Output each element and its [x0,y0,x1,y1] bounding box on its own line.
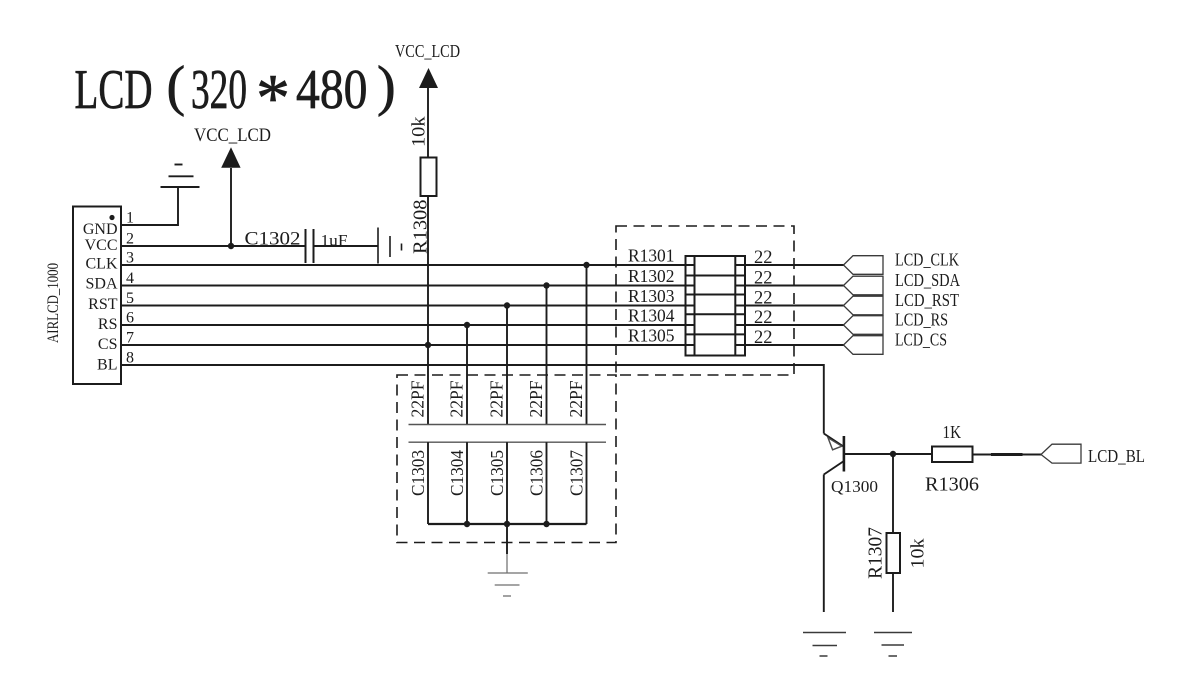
svg-text:*: * [256,60,290,136]
port flag LCD_CS [844,336,884,355]
resistor pack body [686,256,746,356]
emitter diagonal [824,461,844,475]
svg-text:480: 480 [296,59,368,121]
ground bus under caps [428,523,587,525]
junction base/R1307 [890,451,896,457]
svg-text:R1307: R1307 [865,527,887,579]
transistor Q1300 [824,434,844,613]
svg-text:6: 6 [126,310,134,327]
port flag LCD_BL [1041,444,1081,463]
svg-text:4: 4 [126,270,134,287]
svg-text:BL: BL [97,357,117,374]
wire R1305 out [735,344,844,346]
wire R1303 out [735,305,844,307]
svg-text:(: ( [167,56,186,118]
riser C1306 to SDA [546,286,548,425]
port flag LCD_RST [844,296,884,315]
svg-text:): ) [377,56,396,118]
capacitor C1302 plates [305,229,307,263]
title LCD (320*480) [75,56,396,136]
base bar [843,436,846,472]
svg-text:LCD_SDA: LCD_SDA [895,270,960,290]
svg-text:CLK: CLK [86,256,118,273]
collector diagonal [824,434,844,447]
svg-text:22PF: 22PF [566,381,586,418]
riser C1305 to RST [506,306,508,425]
svg-text:RST: RST [88,296,118,313]
wire CS row [121,344,695,346]
dashed box resistor pack [616,226,794,375]
cap lower leads [428,442,587,524]
junction C1306/SDA [543,282,549,288]
wire BL row [121,365,824,434]
svg-text:C1303: C1303 [408,450,428,496]
pin-1 orientation dot [109,215,114,220]
junction C1304/RS [464,322,470,328]
ground at R1307 [874,633,912,657]
svg-text:Q1300: Q1300 [831,477,878,496]
svg-text:2: 2 [126,231,134,248]
svg-text:1K: 1K [943,422,962,442]
svg-text:7: 7 [126,330,134,347]
port flag LCD_SDA [844,276,884,295]
emitter wire down [823,475,825,613]
junction C1304/bus [464,521,470,527]
connector J AIRLCD_1000 box [73,207,121,385]
wire C1302 to ground [314,245,379,247]
wire CLK row [121,264,695,266]
wire VCC_LCD arrow to VCC row [230,168,232,246]
riser C1307 to CLK [586,265,588,425]
svg-text:R1302: R1302 [628,266,675,286]
svg-text:R1305: R1305 [628,326,675,346]
ground under caps [488,573,528,596]
junction C1305/RST [504,302,510,308]
junction R1308/CS [425,342,431,348]
wire R1306 to LCD_BL flag [973,454,1042,456]
svg-text:22PF: 22PF [408,381,428,418]
wire R1308 down to CS row and C1303 [427,196,429,425]
junction C1306/bus [543,521,549,527]
ground (flipped up) at pin1 [161,165,200,188]
wire RST row [121,305,695,307]
svg-text:1: 1 [126,210,134,227]
svg-text:CS: CS [98,336,118,353]
dashed box capacitor bank [397,375,616,543]
wire R1302 out [735,285,844,287]
power arrow VCC_LCD (top) [419,68,438,88]
resistor R1306 body [932,447,973,463]
riser C1304 to RS [466,325,468,425]
power arrow VCC_LCD (left) [221,147,240,168]
svg-text:VCC_LCD: VCC_LCD [194,126,271,146]
wire R1304 out [735,324,844,326]
ground at emitter [803,633,846,657]
junction C1307/CLK [583,262,589,268]
wire RS row [121,324,695,326]
svg-text:R1306: R1306 [925,474,979,496]
svg-text:C1307: C1307 [567,450,587,496]
wire R1307 branch down [892,454,894,533]
svg-text:LCD: LCD [75,59,153,121]
svg-text:R1301: R1301 [628,246,675,266]
svg-text:VCC_LCD: VCC_LCD [395,41,460,61]
wire R1301 out [735,264,844,266]
svg-text:C1302: C1302 [245,229,301,250]
svg-text:C1306: C1306 [527,450,547,496]
wire pin2 VCC row [121,245,306,247]
wire pin1 GND to ground symbol [121,187,178,225]
port flag LCD_RS [844,316,884,335]
resistor R1308 body [421,158,437,197]
svg-text:10k: 10k [410,116,430,147]
wire base to R1306 [844,453,932,455]
junction VCC / VCC_LCD [228,243,234,249]
capacitor plates (shared lines) [409,424,607,426]
svg-text:8: 8 [126,350,134,367]
ground (sideways right) at C1302 [378,228,402,264]
svg-text:C1305: C1305 [487,450,507,496]
arrow (open) [828,438,842,450]
svg-text:LCD_CS: LCD_CS [895,330,947,350]
svg-text:22PF: 22PF [487,381,507,418]
port flag LCD_CLK [844,256,884,275]
svg-text:AIRLCD_1000: AIRLCD_1000 [45,263,62,343]
svg-text:VCC: VCC [85,237,118,254]
wire arrow to R1308 [427,88,429,158]
svg-text:5: 5 [126,290,134,307]
svg-text:LCD_BL: LCD_BL [1088,446,1145,466]
svg-text:SDA: SDA [85,276,117,293]
svg-text:GND: GND [83,221,118,238]
svg-text:LCD_RST: LCD_RST [895,290,959,310]
svg-text:RS: RS [98,316,118,333]
svg-text:10k: 10k [908,538,929,569]
svg-text:LCD_CLK: LCD_CLK [895,250,959,270]
svg-text:22PF: 22PF [447,381,467,418]
svg-text:R1303: R1303 [628,286,675,306]
stub to ground [506,524,508,554]
svg-text:LCD_RS: LCD_RS [895,310,948,330]
wire SDA row [121,285,695,287]
wire R1307 to ground [892,573,894,612]
svg-text:R1304: R1304 [628,306,675,326]
svg-text:22PF: 22PF [526,381,546,418]
resistor R1307 body [887,533,901,573]
svg-text:320: 320 [191,59,247,121]
junction C1305/bus [504,521,510,527]
svg-text:C1304: C1304 [447,450,467,496]
svg-text:3: 3 [126,250,134,267]
